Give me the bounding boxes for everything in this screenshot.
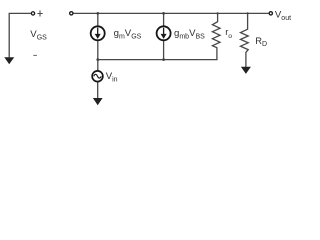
svg-text:VGS: VGS [30, 29, 47, 42]
svg-text:gmVGS: gmVGS [114, 28, 142, 40]
svg-text:Vout: Vout [275, 10, 291, 23]
svg-text:Vin: Vin [106, 71, 118, 84]
svg-text:RD: RD [255, 36, 267, 48]
svg-text:gmbVBS: gmbVBS [174, 28, 205, 40]
svg-text:ro: ro [225, 27, 232, 40]
